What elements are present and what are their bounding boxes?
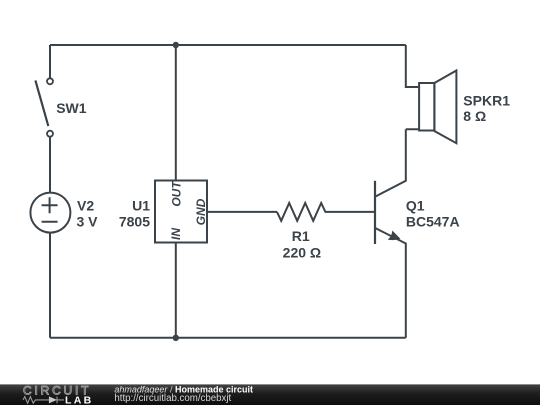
svg-text:3 V: 3 V	[77, 213, 99, 229]
svg-text:Q1: Q1	[406, 197, 425, 213]
svg-text:IN: IN	[169, 228, 183, 240]
svg-text:BC547A: BC547A	[406, 213, 460, 229]
svg-text:SPKR1: SPKR1	[463, 93, 510, 109]
svg-text:7805: 7805	[119, 213, 150, 229]
svg-text:V2: V2	[77, 197, 94, 213]
svg-text:U1: U1	[132, 197, 150, 213]
svg-text:R1: R1	[292, 228, 310, 244]
svg-text:LAB: LAB	[65, 395, 93, 405]
svg-text:220 Ω: 220 Ω	[283, 245, 321, 261]
svg-text:8 Ω: 8 Ω	[463, 108, 486, 124]
svg-text:OUT: OUT	[169, 180, 183, 207]
svg-text:GND: GND	[194, 198, 208, 225]
svg-text:http://circuitlab.com/cbebxjt: http://circuitlab.com/cbebxjt	[114, 393, 231, 404]
svg-text:SW1: SW1	[56, 100, 87, 116]
